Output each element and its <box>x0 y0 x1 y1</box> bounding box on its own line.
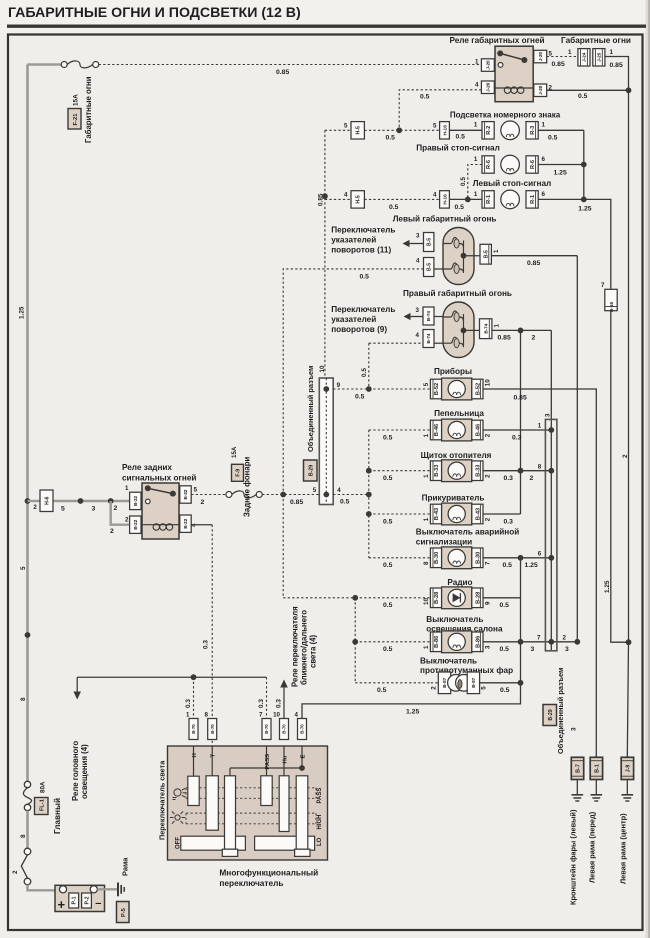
fog lamp switch illumination (B-87) <box>438 672 450 694</box>
connector B-5 pin 3 + arrow to turn switch <box>424 233 434 252</box>
svg-text:B-30: B-30 <box>434 552 440 564</box>
svg-text:0.5: 0.5 <box>500 646 510 653</box>
connector J-20 (relay pin 1) <box>481 59 494 72</box>
icon: parking lights <box>173 788 187 799</box>
wire 0.5/1.25: hazard to joint bar <box>483 557 551 559</box>
wire 0.5: relay pin 2 to right bus <box>547 89 629 91</box>
connector B-70 (H) <box>189 719 198 740</box>
svg-text:3: 3 <box>531 646 535 653</box>
lamp: hazard switch illumination (B-30) <box>430 548 441 568</box>
svg-text:2: 2 <box>12 870 19 874</box>
svg-text:0.5: 0.5 <box>548 135 558 142</box>
svg-text:5: 5 <box>194 487 198 494</box>
lamp: heater panel illumination (B-33) <box>430 461 441 481</box>
svg-text:1: 1 <box>610 49 614 56</box>
ground connector P-5 <box>117 902 130 923</box>
wire 0.85: J-25 to right bus <box>605 57 629 91</box>
svg-text:LO: LO <box>317 837 323 846</box>
svg-text:1.25: 1.25 <box>19 306 26 319</box>
svg-text:7: 7 <box>601 282 605 289</box>
svg-text:B-46: B-46 <box>434 424 440 436</box>
svg-text:B-29: B-29 <box>548 709 554 720</box>
svg-text:1: 1 <box>538 423 542 430</box>
svg-text:3: 3 <box>484 645 491 649</box>
svg-text:E: E <box>300 755 306 759</box>
svg-text:B-5: B-5 <box>484 250 490 258</box>
wire 0.5: R-3 to stop-bus <box>538 129 584 131</box>
svg-text:света (4): света (4) <box>308 634 317 668</box>
wire: left marker ground line (to B-7) <box>576 256 578 643</box>
radio illumination (diode, B-28) <box>430 588 441 608</box>
svg-text:0.5: 0.5 <box>503 562 513 569</box>
svg-text:Hu: Hu <box>282 755 288 763</box>
connector B-22 (pin 1) <box>130 492 141 509</box>
svg-text:0.85: 0.85 <box>498 335 511 342</box>
lamp: instrument illumination (B-52) <box>430 379 441 399</box>
svg-text:2: 2 <box>530 475 534 482</box>
svg-text:1: 1 <box>125 485 129 492</box>
wire 0.85: relay pin 5 to connector J-24 <box>547 56 578 58</box>
svg-text:0.5: 0.5 <box>500 687 510 694</box>
svg-text:R-3: R-3 <box>530 126 536 135</box>
wire 0.5: drop bus to B-33 <box>369 470 431 472</box>
svg-text:H-5: H-5 <box>356 195 362 203</box>
connector B-1 <box>590 757 602 779</box>
svg-text:Реле переключателя: Реле переключателя <box>290 606 299 687</box>
svg-text:0.3: 0.3 <box>504 518 514 525</box>
svg-text:B-28: B-28 <box>434 592 440 604</box>
svg-text:0.3: 0.3 <box>185 699 192 708</box>
svg-text:5: 5 <box>433 123 437 130</box>
wire: left bus corner to H-5 <box>325 129 351 131</box>
svg-text:B-86: B-86 <box>434 636 440 648</box>
wire 1.25: H-16 down to ground bus <box>611 311 629 643</box>
svg-text:B-30: B-30 <box>476 552 482 564</box>
node: joint connector pin 5/4 (feed) <box>323 492 329 498</box>
node: feed / salon row <box>352 639 358 645</box>
wire 0.5: drop bus to B-46 <box>369 429 431 431</box>
svg-text:Переключатель: Переключатель <box>331 305 395 314</box>
svg-text:FL-1: FL-1 <box>39 799 45 811</box>
svg-text:0.85: 0.85 <box>527 260 540 267</box>
svg-text:8: 8 <box>538 463 542 470</box>
lamp: left stop signal (R-1) <box>482 191 494 208</box>
svg-text:P-2: P-2 <box>84 896 90 904</box>
svg-text:0.5: 0.5 <box>377 687 387 694</box>
svg-text:7: 7 <box>484 561 491 565</box>
node: left feed bus end <box>280 492 286 498</box>
svg-text:PASS: PASS <box>317 788 323 804</box>
FL-1 label box <box>35 798 49 815</box>
wire 0.5: bar pin 4 to drop bus <box>333 494 369 496</box>
wire 0.5: H-5 to H-16 (left stop) <box>364 198 439 200</box>
svg-text:B-70: B-70 <box>191 724 196 734</box>
svg-text:1.25: 1.25 <box>525 562 538 569</box>
node: stop feed split <box>465 197 471 203</box>
svg-text:указателей: указателей <box>331 236 376 245</box>
node: license feed / relay pin4 drop <box>396 127 402 133</box>
node: joint bar pin 8 <box>548 468 554 474</box>
svg-text:10: 10 <box>319 365 326 372</box>
svg-text:+: + <box>58 897 66 912</box>
wire: switch to battery <box>28 885 56 891</box>
wire 0.85: right marker to joint connector bus <box>492 329 551 331</box>
connector B-74 pin 1 <box>480 319 492 339</box>
node: right bus / relay pin 2 <box>626 87 632 93</box>
wire: drop bus radio/salon/fog <box>354 598 356 683</box>
connector J-20 (relay pin 5) <box>534 50 547 63</box>
svg-text:Прикуриватель: Прикуриватель <box>422 493 485 502</box>
wire: relay pin 4 to light switch (T) <box>191 524 212 526</box>
wire: drop to heater row <box>520 330 522 514</box>
svg-text:2: 2 <box>532 335 536 342</box>
svg-text:2: 2 <box>484 517 491 521</box>
wire: bus to H-5 pin4 <box>325 198 351 200</box>
svg-text:Рама: Рама <box>121 857 130 876</box>
connector J-25 <box>593 49 605 66</box>
node: trunk splice <box>25 632 31 638</box>
svg-text:0.5: 0.5 <box>389 204 399 211</box>
svg-text:3: 3 <box>416 307 420 314</box>
node: stop bus / right stop <box>581 162 587 168</box>
svg-text:5: 5 <box>20 566 27 570</box>
svg-text:R-6: R-6 <box>486 160 492 169</box>
svg-text:H-16: H-16 <box>442 125 448 136</box>
fusible link FL-1 80A <box>24 781 30 787</box>
svg-text:B-22: B-22 <box>183 518 188 528</box>
svg-text:Габаритные огни: Габаритные огни <box>84 76 93 143</box>
svg-text:15A: 15A <box>73 94 80 106</box>
wire 0.3: lighter up to heater row <box>483 513 521 515</box>
connector B-5 pin 1 <box>480 244 491 264</box>
wire 0.5: H-5 to H-16 <box>364 129 439 131</box>
connector J-9 <box>621 757 633 779</box>
connector J-20 (relay pin 2) <box>534 84 547 97</box>
svg-text:0.5: 0.5 <box>460 177 467 186</box>
svg-text:5: 5 <box>480 686 487 690</box>
svg-text:1: 1 <box>493 324 500 328</box>
svg-text:B-5: B-5 <box>427 263 433 271</box>
svg-text:P-5: P-5 <box>121 908 127 917</box>
connector id B-29 (right) <box>543 705 557 726</box>
svg-text:Радио: Радио <box>447 578 472 587</box>
wire 0.5: left marker feed <box>283 269 423 495</box>
svg-text:7: 7 <box>537 634 541 641</box>
wire: right stop feed drop <box>468 165 482 200</box>
svg-text:ближнего/дальнего: ближнего/дальнего <box>299 610 308 685</box>
connector B-7 <box>571 757 583 779</box>
bus inside joint connector <box>325 378 327 505</box>
svg-text:3: 3 <box>565 646 569 653</box>
node: joint bar pin 6 <box>548 555 554 561</box>
svg-text:сигнальных огней: сигнальных огней <box>122 473 196 482</box>
node: right marker common <box>461 328 467 334</box>
svg-text:1: 1 <box>186 712 190 719</box>
svg-text:1.25: 1.25 <box>554 169 567 176</box>
node: bus / left stop feed <box>322 193 328 199</box>
svg-text:Кронштейн фары (левый): Кронштейн фары (левый) <box>569 809 578 905</box>
svg-text:1: 1 <box>423 474 430 478</box>
svg-text:3: 3 <box>92 505 96 512</box>
svg-text:4: 4 <box>295 712 299 719</box>
svg-text:1: 1 <box>568 49 572 56</box>
wire: battery negative to frame ground <box>97 888 118 890</box>
svg-text:0.5: 0.5 <box>355 394 365 401</box>
svg-text:15A: 15A <box>231 446 238 458</box>
svg-text:5: 5 <box>313 487 317 494</box>
wire: FL-1 to battery switch <box>26 811 29 849</box>
wire: battery trunk to fuse F-21 <box>28 63 62 66</box>
svg-text:5: 5 <box>423 382 430 386</box>
svg-text:10: 10 <box>423 598 430 605</box>
svg-text:1: 1 <box>475 59 479 66</box>
svg-text:3: 3 <box>416 233 420 240</box>
ground: Левая рама (перед) <box>591 794 603 796</box>
node: stop bus / left stop <box>581 197 587 203</box>
arrow up: Реле переключателя ближнего/дальнего света (4) <box>283 688 285 719</box>
ground: Кронштейн фары (левый) <box>572 794 584 796</box>
selector bars OFF / LO <box>181 836 246 850</box>
svg-text:переключатель: переключатель <box>219 878 283 888</box>
wire 0.5: drop bus to B-52 <box>369 388 431 390</box>
wire 0.5: feed to B-87 <box>355 682 431 684</box>
svg-text:J-25: J-25 <box>597 52 602 62</box>
svg-text:указателей: указателей <box>331 315 376 324</box>
svg-text:0.3: 0.3 <box>504 475 514 482</box>
svg-text:противотуманных фар: противотуманных фар <box>420 666 513 675</box>
wire: B-7 to ground <box>576 780 578 795</box>
connector B-74 pin 3 + arrow to turn switch <box>423 307 434 325</box>
node: hazard / ground drop <box>518 555 524 561</box>
svg-text:B-70: B-70 <box>264 724 269 734</box>
svg-text:B-33: B-33 <box>476 465 482 477</box>
wire 0.85: fuse F-21 to relay J-20 pin 1 <box>99 64 482 66</box>
node: joint connector pin 9 (instruments) <box>323 386 329 392</box>
battery terminal connector P-2 <box>82 893 92 908</box>
svg-text:0.85: 0.85 <box>514 395 527 402</box>
svg-text:Переключатель света: Переключатель света <box>158 760 167 840</box>
svg-text:0.5: 0.5 <box>500 602 510 609</box>
node: drop bus / instruments row <box>366 386 372 392</box>
fuse F-21 <box>61 62 67 68</box>
svg-text:B-28: B-28 <box>476 592 482 604</box>
wire 0.5: right marker feed from drop bus <box>369 342 423 344</box>
svg-text:1: 1 <box>542 122 546 129</box>
node: trunk / H-6 row junction <box>25 498 31 504</box>
wire 0.5: feed to B-86 <box>355 641 430 643</box>
wire: trunk to rear lights relay (H-6 row) <box>28 500 130 503</box>
wire: right ground bus (to J-9) <box>628 90 630 642</box>
wire: H/PASS bus to headlight relay <box>77 676 266 678</box>
svg-text:0.85: 0.85 <box>290 499 303 506</box>
relay K2 switch contact <box>145 485 151 491</box>
svg-text:5: 5 <box>61 505 65 512</box>
node: joint bar pin 1 <box>548 427 554 433</box>
node: drop bus / feed from bar pin 4 <box>366 492 372 498</box>
wire 0.5: drop bus to B-30 <box>369 557 431 559</box>
svg-text:B-52: B-52 <box>434 383 440 395</box>
wire 0.5: relay pin 4 feed <box>399 90 481 131</box>
svg-text:F-9: F-9 <box>236 469 242 477</box>
svg-text:Подсветка номерного знака: Подсветка номерного знака <box>450 110 561 119</box>
svg-text:R-1: R-1 <box>530 195 536 204</box>
svg-text:–: – <box>95 898 101 910</box>
wire: drop bus segment 2 (ashtray..hazard) <box>368 430 370 558</box>
relay K1 switch contact <box>497 50 503 56</box>
svg-text:2: 2 <box>430 686 437 690</box>
connector B-70 (T) <box>208 719 217 740</box>
svg-text:Правый стоп-сигнал: Правый стоп-сигнал <box>416 144 500 153</box>
svg-text:0.5: 0.5 <box>383 475 393 482</box>
wire 0.5: feed to B-28 <box>355 597 430 599</box>
svg-text:Левая рама (перед): Левая рама (перед) <box>588 811 597 883</box>
svg-text:Задние фонари: Задние фонари <box>243 457 252 517</box>
ground: Рама (frame) <box>117 883 119 897</box>
svg-text:0.3: 0.3 <box>512 435 522 442</box>
svg-text:F-21: F-21 <box>73 113 79 126</box>
svg-text:1: 1 <box>474 122 478 129</box>
svg-text:0.3: 0.3 <box>258 699 265 708</box>
long contact bars with tabs <box>225 776 236 849</box>
lamp: interior light switch illumination (B-86) <box>430 632 441 652</box>
svg-text:J-20: J-20 <box>486 82 491 92</box>
svg-text:2: 2 <box>33 504 37 511</box>
svg-text:0.5: 0.5 <box>383 435 393 442</box>
node: salon / ground drop <box>518 639 524 645</box>
node: ground bus junction <box>626 639 632 645</box>
svg-text:H-6: H-6 <box>44 496 50 504</box>
right marker bulb filaments <box>443 311 464 321</box>
wire 1.25: earth line to multifunction switch E <box>302 683 521 719</box>
svg-text:Левый стоп-сигнал: Левый стоп-сигнал <box>473 179 551 188</box>
lamp: cigarette lighter illumination (B-43) <box>430 504 441 524</box>
svg-text:B-29: B-29 <box>308 465 314 476</box>
connector H-5 pin 4 <box>351 191 364 208</box>
wire 1.25: R-6 to stop bus <box>538 164 584 166</box>
svg-text:J-20: J-20 <box>538 52 543 62</box>
battery terminal connector P-1 <box>69 893 79 908</box>
svg-text:6: 6 <box>538 550 542 557</box>
node: E internal junction <box>299 765 305 771</box>
svg-text:B-70: B-70 <box>210 724 215 734</box>
svg-text:Щиток отопителя: Щиток отопителя <box>421 451 492 460</box>
svg-text:B-87: B-87 <box>471 677 476 687</box>
connector B-22 (pin 4, coil) <box>180 515 191 532</box>
svg-text:H-5: H-5 <box>356 126 362 134</box>
wire: main battery trunk (left) <box>26 65 29 785</box>
svg-text:R-6: R-6 <box>530 160 536 169</box>
connector J-24 <box>578 49 590 66</box>
connector H-16 pin 5 <box>440 122 450 139</box>
svg-text:8: 8 <box>20 834 27 838</box>
svg-text:B-52: B-52 <box>476 383 482 395</box>
svg-text:B-74: B-74 <box>426 333 431 343</box>
svg-text:B-70: B-70 <box>300 724 305 734</box>
svg-text:1: 1 <box>423 517 430 521</box>
svg-text:Реле габаритных огней: Реле габаритных огней <box>449 35 544 45</box>
wire: J-9 to ground <box>626 780 628 795</box>
svg-text:8: 8 <box>205 712 209 719</box>
svg-text:4: 4 <box>416 332 420 339</box>
svg-text:B-22: B-22 <box>133 495 138 505</box>
svg-text:H-16: H-16 <box>609 301 615 312</box>
relay K2 body <box>142 483 179 539</box>
node: joint bar pin 7 <box>548 639 554 645</box>
svg-text:1: 1 <box>474 191 478 198</box>
svg-text:освещения (4): освещения (4) <box>80 744 89 799</box>
svg-text:0.85: 0.85 <box>552 61 565 68</box>
node: B-7 line junction <box>574 639 580 645</box>
svg-text:Выключатель аварийной: Выключатель аварийной <box>416 527 519 536</box>
svg-text:5: 5 <box>344 123 348 130</box>
svg-text:1.25: 1.25 <box>406 708 419 715</box>
svg-text:сигнализации: сигнализации <box>416 537 472 546</box>
svg-text:0.5: 0.5 <box>361 368 368 377</box>
svg-text:B-22: B-22 <box>183 489 188 499</box>
svg-text:Левый габаритный огонь: Левый габаритный огонь <box>393 214 497 224</box>
connector B-22 (pin 5) <box>180 486 191 503</box>
wire: radio/salon/fog feed bus <box>283 597 355 599</box>
svg-text:Реле головного: Реле головного <box>71 741 80 801</box>
svg-text:10: 10 <box>484 379 491 386</box>
connector id B-29 (upper) <box>304 460 318 481</box>
wire: stop bus to connector H-16 (pin 7) <box>584 199 611 289</box>
svg-text:6: 6 <box>542 191 546 198</box>
wire: branch to relay coil (B-22 pin 2) <box>111 501 130 525</box>
wire 0.5: fog switch to ground drop <box>480 682 521 684</box>
svg-text:поворотов (11): поворотов (11) <box>331 246 391 255</box>
svg-text:B-33: B-33 <box>434 465 440 477</box>
node: feed / radio row <box>352 595 358 601</box>
svg-text:B-74: B-74 <box>483 323 488 333</box>
svg-text:3: 3 <box>571 727 578 731</box>
node: H-6 row branch to coil <box>108 498 114 504</box>
relay K1 coil <box>495 87 533 89</box>
svg-text:0.5: 0.5 <box>383 562 393 569</box>
lamp: ashtray illumination (B-46) <box>430 420 441 440</box>
svg-text:R-2: R-2 <box>486 126 492 135</box>
wire 0.5: drop bus to B-43 <box>369 513 431 515</box>
node: left marker common <box>461 253 467 259</box>
svg-text:B-74: B-74 <box>426 311 431 321</box>
dashed detent rows <box>186 787 316 789</box>
svg-text:0.85: 0.85 <box>276 69 289 76</box>
svg-text:Переключатель: Переключатель <box>331 226 395 235</box>
wire 0.3: H wire to B-70 <box>193 677 195 718</box>
wire 0.5: radio to ground drop <box>483 597 521 599</box>
wire 0.85: fuse F-9 to left marker feed <box>262 494 319 496</box>
svg-text:T: T <box>211 754 217 758</box>
arrow down: Реле головного освещения (4) <box>76 677 78 692</box>
svg-text:9: 9 <box>484 601 491 605</box>
wire: drop bus segment 1 (right marker + instruments) <box>368 343 370 389</box>
wire 0.5/3: salon switch to joint bar and B-7 <box>483 641 577 643</box>
svg-text:B-22: B-22 <box>133 519 138 529</box>
svg-text:6: 6 <box>542 156 546 163</box>
svg-text:Выключатель: Выключатель <box>426 615 483 624</box>
connector J-20 (relay pin 4) <box>481 81 494 94</box>
wire 2: relay pin 5 to fuse F-9 <box>191 494 226 496</box>
svg-text:0.5: 0.5 <box>360 273 370 280</box>
svg-text:2: 2 <box>484 433 491 437</box>
svg-text:Габаритные огни: Габаритные огни <box>561 35 631 45</box>
wire 0.5: H-16 to lamp R-2 <box>449 129 482 131</box>
svg-text:B-7: B-7 <box>576 764 582 773</box>
lamp: license plate light (R-2 / R-3) <box>482 122 494 139</box>
svg-text:Объединенный разъем: Объединенный разъем <box>306 366 315 452</box>
svg-text:ГАБАРИТНЫЕ ОГНИ И ПОДСВЕТКИ (1: ГАБАРИТНЫЕ ОГНИ И ПОДСВЕТКИ (12 В) <box>8 5 301 21</box>
svg-text:2: 2 <box>125 517 129 524</box>
